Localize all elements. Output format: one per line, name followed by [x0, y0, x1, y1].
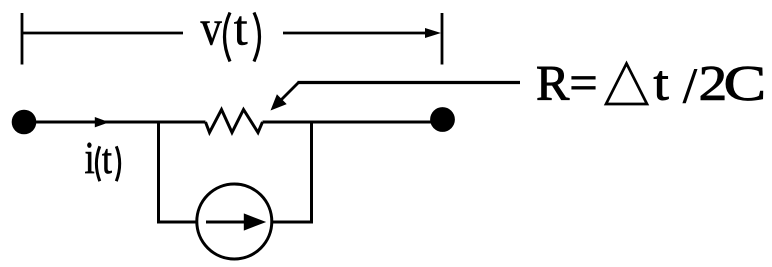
current arrowhead on wire — [95, 117, 109, 127]
label i of i(t) — [85, 133, 95, 184]
svg-text:C: C — [724, 56, 767, 111]
dimension right tick — [441, 13, 444, 65]
wire bottom left segment — [157, 221, 197, 224]
svg-text:v: v — [201, 1, 223, 56]
svg-text:i: i — [85, 133, 95, 184]
svg-text:t: t — [102, 136, 112, 182]
wire bottom right segment — [273, 221, 314, 224]
svg-text:R=: R= — [536, 55, 598, 111]
current source circle — [197, 184, 272, 259]
annotation leader diagonal — [274, 83, 299, 108]
annotation leader line horizontal — [298, 81, 521, 84]
dimension arrowhead right — [425, 28, 441, 38]
svg-text:t: t — [654, 56, 670, 111]
label t of R expression — [654, 56, 670, 111]
dimension line left segment — [22, 32, 183, 35]
current source arrow shaft — [206, 221, 248, 224]
wire left branch leg — [157, 121, 160, 224]
svg-text:t: t — [234, 0, 248, 56]
wire right segment — [263, 121, 444, 124]
paren ) of i(t) — [116, 146, 119, 181]
delta triangle symbol — [606, 64, 647, 105]
paren ( of i(t) — [96, 146, 99, 181]
label 2 of R expression — [699, 55, 728, 111]
wire left segment — [24, 121, 206, 124]
wire right branch leg — [310, 121, 313, 224]
svg-text:/: / — [683, 57, 697, 113]
node terminal right dot — [430, 107, 455, 132]
label v of v(t) — [201, 1, 223, 56]
node terminal left dot — [12, 110, 37, 135]
resistor R zigzag — [206, 110, 263, 133]
paren ( of v(t) — [225, 13, 231, 62]
dimension line right segment — [283, 32, 428, 35]
current source arrowhead — [244, 213, 266, 230]
label C of R expression — [724, 56, 767, 111]
label t of i(t) — [102, 136, 112, 182]
dimension left tick — [21, 13, 24, 65]
paren ) of v(t) — [254, 13, 260, 62]
annotation arrowhead — [271, 94, 287, 110]
